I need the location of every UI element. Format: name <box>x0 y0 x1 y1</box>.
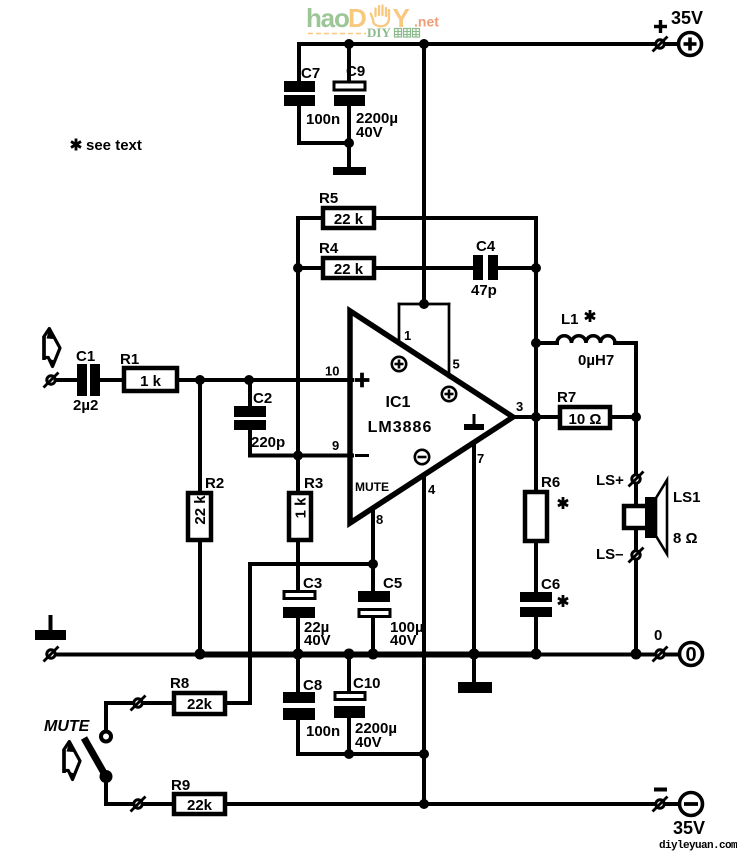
capacitor C2 (220p) plates <box>234 406 266 430</box>
wire C1 to R1 <box>99 378 123 382</box>
capacitor C4 (47p) plates <box>473 255 498 280</box>
svg-text:diyleyuan.com: diyleyuan.com <box>659 840 737 851</box>
svg-text:220p: 220p <box>251 434 285 451</box>
svg-text:22 k: 22 k <box>192 495 209 525</box>
op-amp ground glyph near pin 7 <box>464 414 484 430</box>
wire L1 left <box>536 341 557 345</box>
wire 0V rail left thin <box>51 653 200 657</box>
svg-text:3: 3 <box>516 399 523 414</box>
wire pin 8 to C5 <box>371 510 375 592</box>
svg-text:C10: C10 <box>353 675 381 692</box>
svg-text:8: 8 <box>376 512 383 527</box>
svg-text:22 k: 22 k <box>334 261 364 278</box>
svg-text:C7: C7 <box>301 65 320 82</box>
wire C8 bottom <box>296 719 300 754</box>
capacitor C3 (22u) plates <box>284 592 315 599</box>
wire R4 right to C4 <box>375 266 474 270</box>
svg-text:0µH7: 0µH7 <box>578 352 614 369</box>
svg-text:R1: R1 <box>120 351 139 368</box>
speaker LS1 <box>624 480 667 554</box>
svg-text:R5: R5 <box>319 190 338 207</box>
svg-text:47p: 47p <box>471 282 497 299</box>
capacitor C5 (100u) plates <box>358 591 390 602</box>
minus sign above -35V terminal <box>654 788 667 792</box>
svg-text:C9: C9 <box>346 63 365 80</box>
wire C10 top <box>347 653 351 692</box>
capacitor C8 (100n) plates <box>283 692 315 720</box>
wire mute column x250 <box>248 564 252 703</box>
resistor R3 1k <box>289 493 311 540</box>
wire R1 to pin 10 <box>178 378 352 382</box>
svg-text:L1: L1 <box>561 311 579 328</box>
wire R5 right to output column <box>375 216 536 220</box>
wire top +35V rail <box>299 42 678 46</box>
svg-text:5: 5 <box>453 357 460 372</box>
wire output pin 3 <box>511 415 559 419</box>
wire C5 to rail <box>371 616 375 653</box>
svg-text:R6: R6 <box>541 474 560 491</box>
wire C9 branch to ground <box>347 105 351 167</box>
wire R9 right to -35V <box>225 802 678 806</box>
svg-text:R9: R9 <box>171 777 190 794</box>
svg-text:7: 7 <box>477 451 484 466</box>
svg-text:R8: R8 <box>170 675 189 692</box>
resistor R1 1k <box>124 368 177 391</box>
svg-text:D: D <box>348 3 367 33</box>
wire R8 right <box>225 701 250 705</box>
svg-text:MUTE: MUTE <box>44 718 91 735</box>
svg-text:C3: C3 <box>303 575 322 592</box>
wire output column x536 <box>534 218 538 593</box>
mute arrow symbol <box>62 742 80 781</box>
wire switch bottom <box>104 781 108 804</box>
mute switch lever <box>84 738 104 773</box>
ground symbol under C9 <box>333 167 366 175</box>
terminal +35V <box>653 37 668 52</box>
svg-text:10: 10 <box>325 364 339 379</box>
wire C7 to C9 link <box>299 141 349 145</box>
svg-text:40V: 40V <box>390 632 417 649</box>
svg-text:C6: C6 <box>541 576 560 593</box>
svg-text:1: 1 <box>404 328 411 343</box>
capacitor C9 (2200u) plates <box>334 82 365 90</box>
capacitor C7 (100n) plates <box>284 81 315 106</box>
svg-text:C1: C1 <box>76 348 95 365</box>
asterisk near R6 <box>558 497 568 509</box>
resistor R5 22k <box>323 208 374 228</box>
mute switch pole dot <box>100 770 113 783</box>
resistor R2 22k <box>188 493 211 540</box>
wire R2 column <box>198 380 202 653</box>
asterisk see-text note <box>71 139 81 151</box>
mute switch contact circle <box>101 732 111 742</box>
wire speaker column <box>634 417 638 653</box>
wire C8 C10 bottom link <box>298 752 424 756</box>
svg-text:1 k: 1 k <box>293 497 310 519</box>
svg-text:R7: R7 <box>557 389 576 406</box>
wire C9 branch top <box>347 44 351 82</box>
svg-text:LM3886: LM3886 <box>368 419 433 436</box>
resistor R8 22k <box>174 693 225 714</box>
svg-text:MUTE: MUTE <box>355 480 389 494</box>
wire R7 right <box>611 415 636 419</box>
wire switch top <box>104 703 108 731</box>
svg-text:R3: R3 <box>304 475 323 492</box>
wire R3 C3 column <box>296 492 300 591</box>
inductor L1 coil <box>557 336 615 343</box>
asterisk near C6 <box>558 595 568 607</box>
wire C6 to rail <box>534 616 538 653</box>
svg-text:C4: C4 <box>476 238 496 255</box>
svg-text:8 Ω: 8 Ω <box>673 530 698 547</box>
ground symbol under pin 7 <box>458 682 492 693</box>
wire 0V rail center thick <box>200 652 536 658</box>
op-amp IC1 triangle body <box>350 311 513 523</box>
resistor R4 22k <box>323 258 374 278</box>
plus sign above +35V terminal <box>654 20 667 33</box>
svg-text:R2: R2 <box>205 475 224 492</box>
svg-text:0: 0 <box>654 627 662 644</box>
wire pin 9 <box>250 454 352 458</box>
terminal LS- <box>629 548 644 563</box>
wire L1 down to R7 <box>634 343 638 417</box>
terminal input (circle with slash) <box>44 373 59 388</box>
wire input ground stem <box>49 617 53 630</box>
logo haoDIY.net <box>306 3 439 40</box>
wire C7 branch bottom <box>297 105 301 143</box>
op-amp supply + symbol near pin 1 <box>392 357 406 371</box>
resistor R7 10ohm <box>560 407 610 428</box>
wire R8 left <box>106 701 174 705</box>
terminal ground left <box>44 647 59 662</box>
wire C8 top <box>296 653 300 693</box>
wire C3 to rail <box>296 616 300 653</box>
svg-text:1 k: 1 k <box>140 373 162 390</box>
supply circle +35V <box>679 33 702 56</box>
svg-text:9: 9 <box>332 438 339 453</box>
op-amp + input marker <box>355 373 370 388</box>
svg-text:40V: 40V <box>356 124 383 141</box>
wire C10 bottom <box>347 717 351 754</box>
op-amp supply - symbol near pin 4 <box>415 450 429 464</box>
wire C4 to output column <box>497 266 536 270</box>
wire pin 7 to rail <box>472 445 476 653</box>
svg-text:LS1: LS1 <box>673 489 701 506</box>
terminal LS+ <box>629 472 644 487</box>
supply circle 0 <box>680 643 703 667</box>
terminal R8 left <box>131 696 146 711</box>
svg-text:.net: .net <box>414 14 439 30</box>
wire feedback column x298 <box>296 218 300 492</box>
wire 0V rail right thin <box>536 653 678 657</box>
svg-text:100n: 100n <box>306 723 340 740</box>
svg-text:40V: 40V <box>304 632 331 649</box>
capacitor C1 (2u2) plates <box>77 364 100 396</box>
svg-text:C2: C2 <box>253 390 272 407</box>
svg-text:hao: hao <box>306 3 349 33</box>
op-amp supply + symbol near pin 5 <box>442 387 456 401</box>
ground symbol at input ground terminal <box>35 630 66 640</box>
resistor R9 22k <box>174 794 225 814</box>
wire mute row y564 <box>250 562 373 566</box>
capacitor C6 plates <box>520 592 552 617</box>
svg-text:0: 0 <box>685 644 696 666</box>
wire C7 branch top <box>297 44 301 82</box>
svg-text:C8: C8 <box>303 677 322 694</box>
wire R4 left <box>298 266 322 270</box>
terminal -35V <box>653 797 668 812</box>
supply circle -35V <box>680 793 703 816</box>
input arrow symbol <box>42 329 60 368</box>
wire pin 5 stub <box>448 304 451 377</box>
wire R9 left <box>106 802 174 806</box>
terminal R9 left <box>131 797 146 812</box>
svg-text:LS–: LS– <box>596 546 624 563</box>
svg-text:35V: 35V <box>673 818 705 838</box>
svg-text:35V: 35V <box>671 8 703 28</box>
svg-text:C5: C5 <box>383 575 402 592</box>
wire +V column to pins 1,5 <box>422 44 426 304</box>
svg-text:R4: R4 <box>319 240 339 257</box>
capacitor C10 (2200u) plates <box>335 693 365 700</box>
wire L1 right <box>615 341 636 345</box>
svg-text:40V: 40V <box>355 734 382 751</box>
wire input terminal to C1 <box>54 378 78 382</box>
svg-text:LS+: LS+ <box>596 472 624 489</box>
svg-text:IC1: IC1 <box>386 394 411 411</box>
svg-text:see text: see text <box>86 137 142 154</box>
wire pin 1 stub <box>398 304 401 344</box>
terminal 0V <box>653 647 668 662</box>
asterisk near L1 <box>585 310 595 322</box>
svg-text:100n: 100n <box>306 111 340 128</box>
wire R5 left <box>298 216 322 220</box>
wire pin 7 ground stub <box>472 653 476 683</box>
svg-text:2µ2: 2µ2 <box>73 397 98 414</box>
wire C2 top <box>248 380 252 407</box>
svg-text:DIY: DIY <box>367 25 391 40</box>
svg-text:10 Ω: 10 Ω <box>569 411 602 428</box>
op-amp - input marker <box>355 454 369 457</box>
resistor R6 <box>525 492 547 541</box>
wire pin 4 column -35V <box>422 477 426 804</box>
svg-text:22k: 22k <box>187 696 213 713</box>
svg-text:22k: 22k <box>187 797 213 814</box>
svg-text:22 k: 22 k <box>334 211 364 228</box>
wire bracket over pins 1 and 5 <box>399 303 449 306</box>
svg-text:4: 4 <box>428 482 436 497</box>
wire C2 bottom <box>248 429 252 456</box>
